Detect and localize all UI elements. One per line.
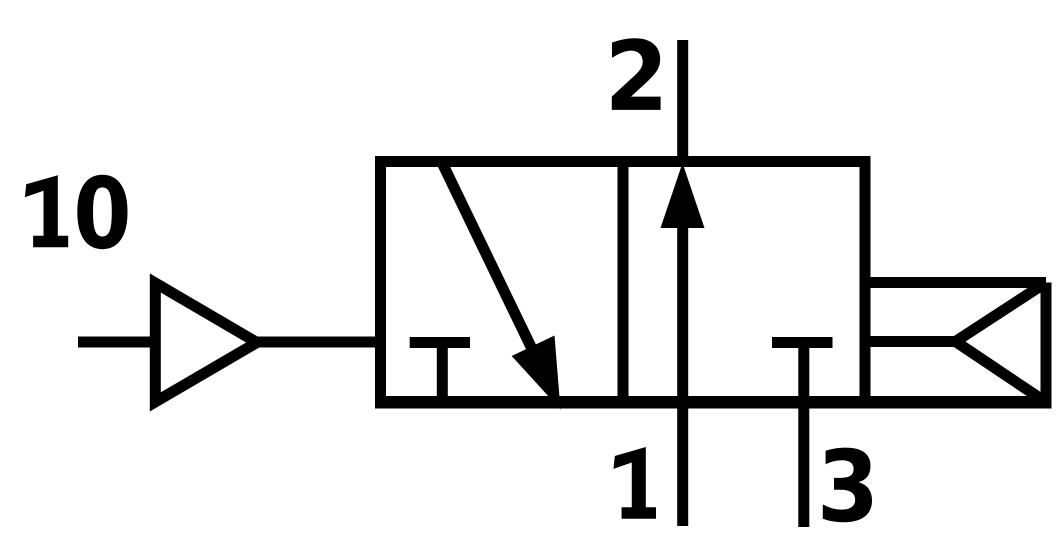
return actuator box right edge [1041, 283, 1052, 403]
return actuator triangle upper diagonal [956, 283, 1047, 342]
left box blocked port T symbol: bar [410, 337, 470, 348]
port label "1" [614, 447, 657, 519]
left box blocked port T symbol: stem [437, 343, 448, 403]
divider between position boxes [618, 162, 629, 403]
wire: pilot triangle to valve body [257, 337, 380, 348]
arrowhead of diagonal flow path [512, 336, 561, 410]
return actuator mid line [865, 336, 957, 347]
wire: pilot port 10 lead-in [78, 337, 153, 348]
arrowhead of vertical flow path (to port 2) [661, 163, 705, 228]
right box blocked port T symbol: bar [772, 337, 833, 348]
valve body: 3/2-way valve outline (top/left/right) [381, 162, 866, 403]
valve body + return actuator bottom edge [375, 396, 1052, 409]
left box flow path: diagonal line [442, 163, 533, 351]
port 2 line [677, 40, 688, 166]
port label "2" [612, 38, 661, 110]
pilot actuator triangle (port 10) [155, 283, 257, 402]
return actuator box top edge [865, 277, 1046, 288]
label "0" of "10" [77, 175, 127, 249]
port 3 line (T stem) [798, 343, 809, 528]
return actuator triangle lower diagonal [956, 342, 1047, 403]
label "1" of "10" [25, 175, 68, 247]
right box flow path line, continues as port 1 line [677, 220, 688, 526]
port label "3" [823, 448, 872, 523]
